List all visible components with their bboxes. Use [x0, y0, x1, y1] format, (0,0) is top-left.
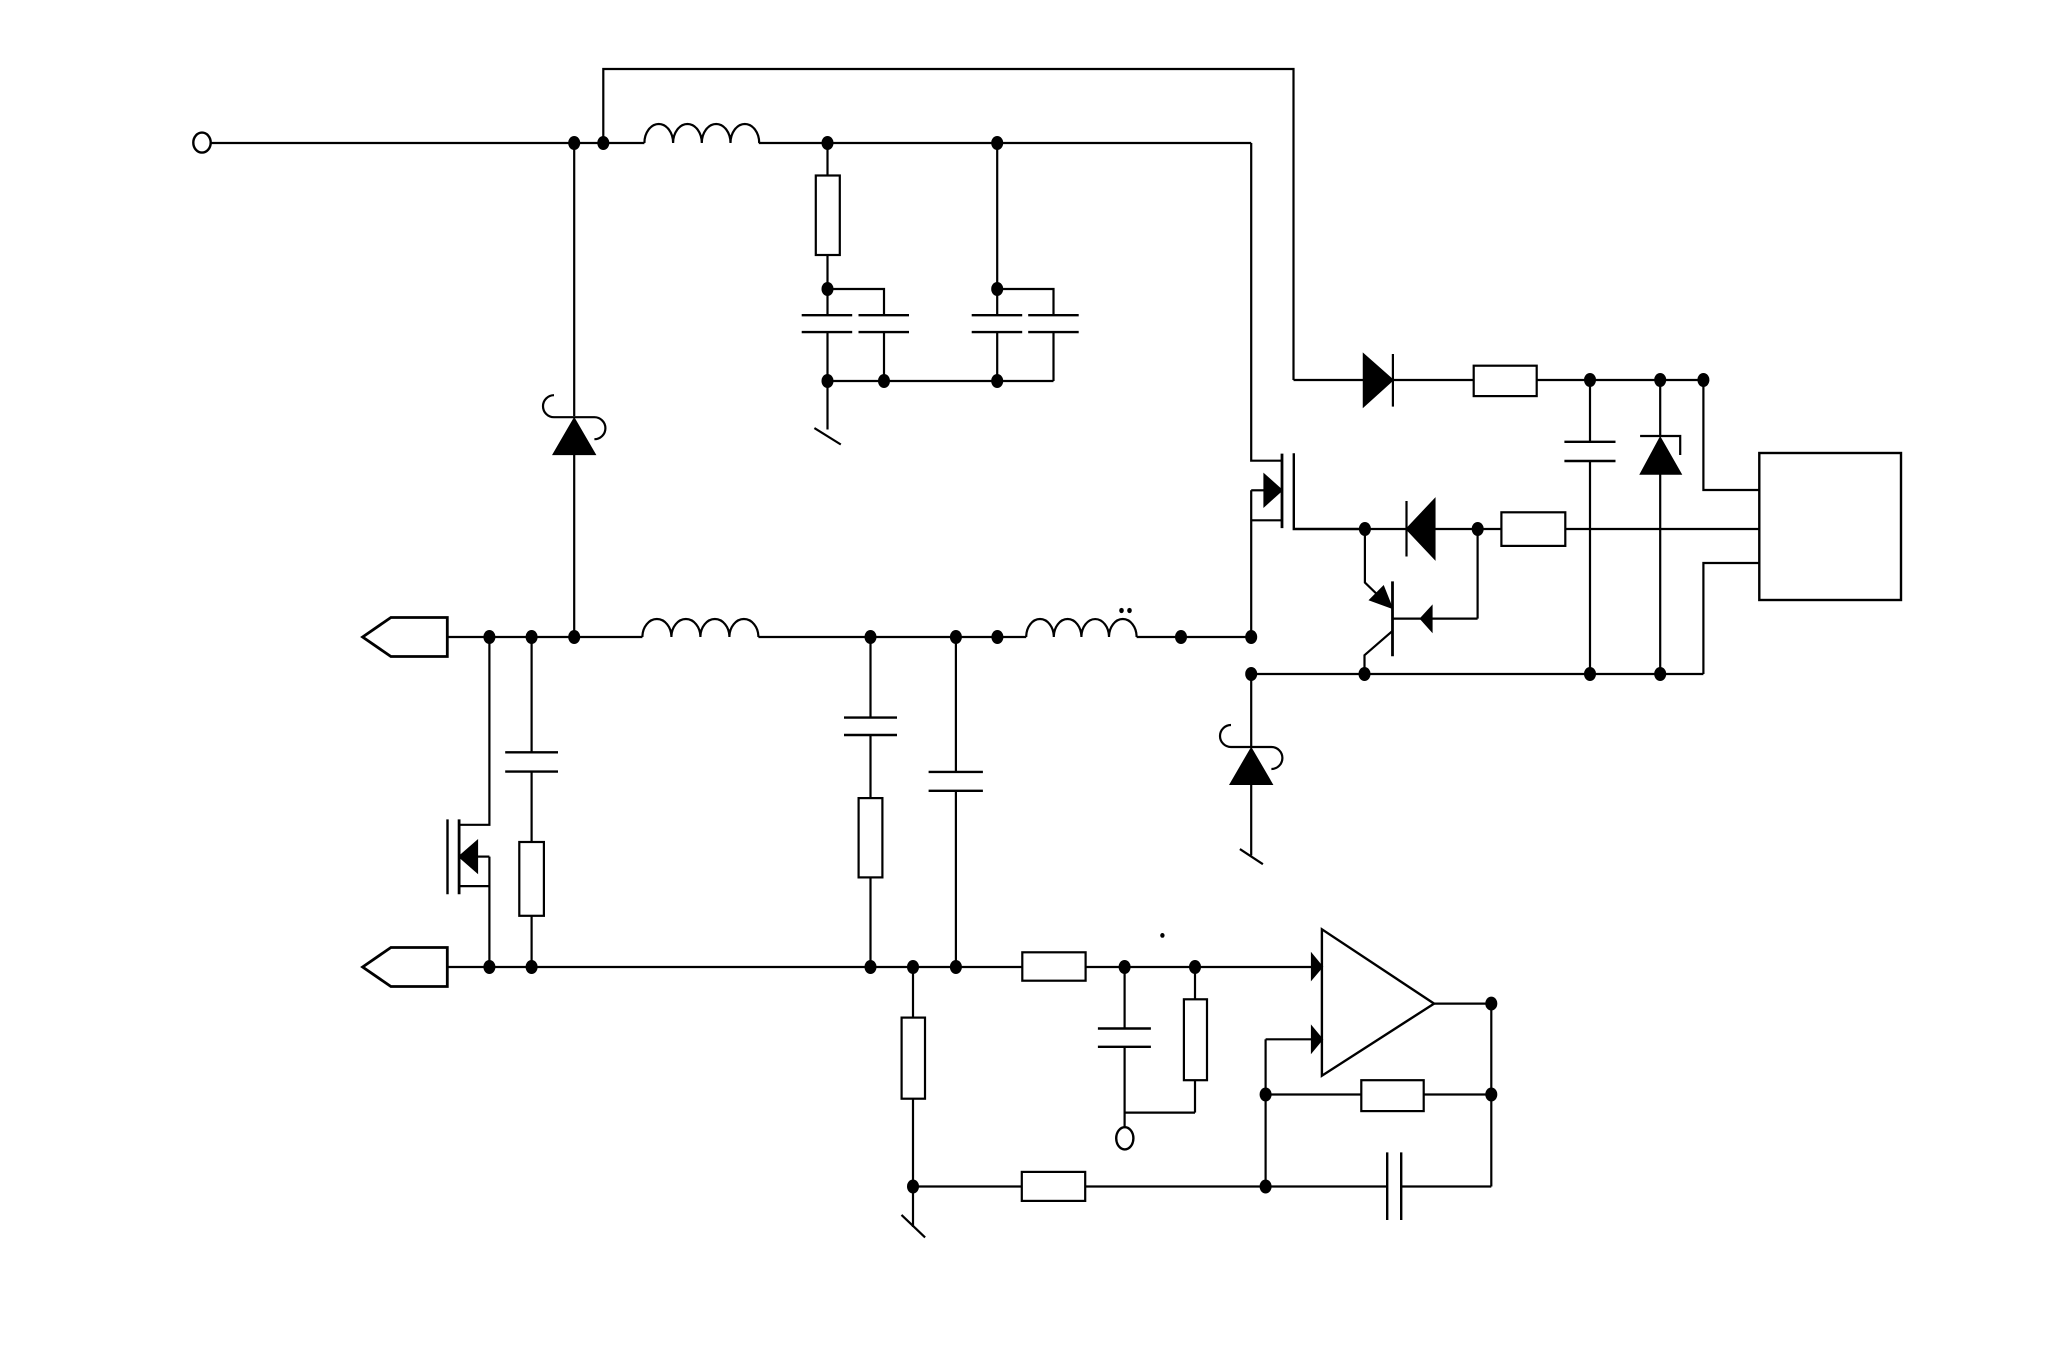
wire op-amp output	[1434, 1002, 1491, 1004]
resistor R9	[1022, 1172, 1085, 1201]
wire minus input	[1266, 1038, 1313, 1040]
wire ZD1 anode	[573, 143, 575, 416]
wire R1 bottom lead	[826, 255, 828, 289]
node top-branch junction	[597, 136, 609, 150]
wire C5 top lead	[1589, 380, 1591, 442]
zener ZD1 cathode bar	[543, 395, 605, 439]
wire D2 to R8	[1435, 528, 1502, 530]
node C1 bottom left	[822, 374, 834, 388]
zener ZD3	[1641, 438, 1682, 475]
wire C5 bottom lead	[1589, 461, 1591, 674]
wire R5 bottom lead	[1194, 1080, 1196, 1112]
wire R1 top lead	[826, 143, 828, 176]
transistor Q2 channel bar	[458, 819, 461, 894]
transistor Q1 channel bar	[1281, 454, 1284, 528]
node Q1-D2 junction	[1359, 522, 1371, 536]
node C1 bottom right	[991, 374, 1003, 388]
wire D1 to R7	[1393, 379, 1474, 381]
resistor R8	[1501, 512, 1565, 546]
resistor R10	[902, 1018, 925, 1099]
resistor R6	[1361, 1080, 1423, 1111]
zener ZD2 cathode bar	[1220, 725, 1282, 769]
node C1 bottom mid	[878, 374, 890, 388]
wire C1a top lead	[826, 289, 828, 315]
wire C1b bottom lead	[883, 332, 885, 381]
wire Q1 source lead down	[1250, 490, 1252, 637]
node ground junction	[907, 1180, 919, 1194]
transistor Q1 arrow	[1265, 475, 1282, 505]
wire C1 bottom bus	[828, 380, 1054, 382]
capacitor C1d plates	[1028, 315, 1079, 332]
wire Q3 collector	[1365, 529, 1384, 601]
wire C7 top lead	[955, 637, 957, 772]
wire Q1 drain lead	[1251, 143, 1282, 461]
node R5 top	[1189, 960, 1201, 974]
connector J1	[363, 618, 448, 657]
node C7 top	[950, 630, 962, 644]
op-amp U1	[1322, 929, 1434, 1075]
zener ZD2	[1230, 748, 1272, 784]
wire Q2 source lead down	[488, 857, 490, 967]
wire C6 to output riser	[1401, 1185, 1491, 1187]
node C1 right top	[991, 136, 1003, 150]
node middle right	[1175, 630, 1187, 644]
wire C1 left bracket	[828, 289, 885, 315]
node ZD1 bottom junction	[568, 630, 580, 644]
polarity dots above L3	[1119, 608, 1124, 613]
node ZD3 top	[1654, 373, 1666, 387]
wire C1a bottom lead	[826, 332, 828, 381]
zener ZD1	[553, 418, 595, 454]
wire C3 top lead	[869, 637, 871, 718]
wire C1c top lead	[996, 289, 998, 315]
wire D2 cathode side	[1365, 528, 1407, 530]
wire box lower pin	[1703, 563, 1759, 674]
wire C3 to R2	[869, 735, 871, 798]
wire Q2 drain lead	[460, 637, 490, 825]
inductor L2	[642, 619, 758, 637]
wire D1 anode	[1294, 379, 1364, 381]
wire Q1 arrow lead	[1251, 489, 1266, 491]
wire R4 to op-amp	[1086, 966, 1313, 968]
wire ZD3 anode lead	[1659, 474, 1661, 674]
node middle row end	[1245, 630, 1257, 644]
wire Q2 arrow lead	[476, 855, 490, 857]
op-amp U1 plus input arrow	[1312, 955, 1322, 979]
wire R7 to box branch	[1537, 379, 1704, 381]
diode D2	[1407, 499, 1435, 559]
wire Q3 base lead	[1393, 617, 1478, 619]
capacitor C1b plates	[859, 315, 910, 332]
wire R10 top lead	[912, 967, 914, 1018]
wire ZD2 anode lead	[1250, 785, 1252, 856]
op-amp U1 minus input arrow	[1312, 1027, 1322, 1051]
wire R3 bottom lead	[530, 916, 532, 967]
resistor R7	[1474, 366, 1537, 396]
wire terminal T2 stub	[1123, 1113, 1125, 1128]
node top-zener junction	[568, 136, 580, 150]
node C5 bottom	[1584, 667, 1596, 681]
transistor Q1 gate bar	[1294, 453, 1365, 529]
resistor R1	[816, 176, 840, 256]
node C1 left top	[822, 282, 834, 296]
node C1 right bracket	[991, 282, 1003, 296]
wire bottom feedback left	[913, 1185, 1022, 1187]
wire C2 top lead	[530, 637, 532, 752]
wire upper loop (y=69) to diode row	[603, 69, 1293, 380]
node R3 bottom	[526, 960, 538, 974]
capacitor C1c plates	[972, 315, 1023, 332]
transistor Q3 base arrow	[1421, 607, 1432, 630]
wire feedback to R6	[1266, 1093, 1362, 1095]
wire R10 bottom lead	[912, 1099, 914, 1187]
wire middle row left	[447, 636, 642, 638]
ground GND3	[902, 1215, 926, 1238]
terminal T2	[1116, 1127, 1133, 1149]
wire R5 top lead	[1194, 967, 1196, 999]
node Q2 drain junction	[483, 630, 495, 644]
capacitor C1a plates	[802, 315, 853, 332]
wire C1 right top lead	[996, 143, 998, 289]
IC box U2	[1759, 453, 1901, 600]
wire Q1 source stub	[1251, 519, 1282, 521]
node ground branch	[907, 960, 919, 974]
capacitor C4 plates	[1098, 1029, 1151, 1047]
wire box upper pin	[1703, 380, 1759, 490]
wire Q3 emitter	[1365, 631, 1393, 674]
wire ZD2 cathode lead	[1250, 674, 1252, 746]
wire R2 bottom lead	[869, 877, 871, 967]
node C5 top	[1584, 373, 1596, 387]
node minus riser bottom	[1260, 1180, 1272, 1194]
node D2-R8 junction	[1472, 522, 1484, 536]
wire middle row centre	[758, 636, 1026, 638]
ground GND1	[814, 428, 840, 444]
wire ZD1 cathode to middle row	[573, 454, 575, 637]
node ZD2 top	[1245, 667, 1257, 681]
input terminal T1	[193, 133, 210, 153]
capacitor C5 plates	[1564, 442, 1615, 461]
wire C4 top lead	[1123, 967, 1125, 1029]
resistor R3	[519, 842, 544, 916]
wire top row right	[759, 142, 1251, 144]
inductor L3	[1026, 619, 1136, 637]
wire ZD3 cathode lead	[1659, 380, 1661, 436]
wire C1d bottom lead	[1052, 332, 1054, 381]
node L3 left	[991, 630, 1003, 644]
node C3 top	[865, 630, 877, 644]
wire middle row right	[1137, 636, 1252, 638]
resistor R4	[1022, 952, 1085, 980]
wire bottom row left	[447, 966, 1022, 968]
wire Q2 source stub	[460, 885, 490, 887]
wire Q3 base riser	[1476, 529, 1478, 619]
capacitor C3 plates	[844, 718, 897, 735]
diode D1	[1364, 354, 1393, 407]
transistor Q3 collector arrow	[1371, 587, 1392, 608]
wire ground stem	[912, 1187, 914, 1228]
wire minus riser lower	[1264, 1095, 1266, 1187]
wire R8 to box middle pin	[1565, 528, 1759, 530]
inductor L1	[644, 124, 759, 143]
capacitor C2 plates	[505, 752, 558, 771]
capacitor C7 plates	[929, 772, 983, 791]
wire C4 bottom link	[1125, 1047, 1195, 1113]
wire R6 to output node	[1424, 1093, 1492, 1095]
node ZD3 bottom	[1654, 667, 1666, 681]
ground GND2	[1240, 849, 1263, 864]
wire C2 to R3	[530, 772, 532, 842]
node output	[1485, 997, 1497, 1011]
transistor Q3 base bar	[1391, 581, 1394, 656]
resistor R5	[1184, 999, 1207, 1080]
wire C1 right bracket	[997, 289, 1053, 315]
transistor Q2 gate bar	[446, 819, 448, 894]
wire top row left	[211, 142, 645, 144]
wire C1 ground stem	[826, 381, 828, 430]
node R2 bottom	[865, 960, 877, 974]
wire output riser	[1490, 1004, 1492, 1187]
node C2 top	[526, 630, 538, 644]
wire C7 bottom lead	[955, 791, 957, 967]
node C7 bottom	[950, 960, 962, 974]
capacitor C6 plates	[1387, 1152, 1401, 1220]
node R1 top	[822, 136, 834, 150]
zener ZD3 cathode bar	[1640, 436, 1680, 455]
transistor Q2 arrow	[460, 841, 477, 871]
wire R9 to C6	[1085, 1185, 1387, 1187]
wire minus input riser	[1264, 1039, 1266, 1094]
node Q2 source junction	[483, 960, 495, 974]
node Q3 emitter junction	[1359, 667, 1371, 681]
node feedback left	[1260, 1088, 1272, 1102]
diode D2 cathode bar	[1405, 501, 1407, 557]
resistor R2	[859, 798, 883, 877]
node C4 top	[1119, 960, 1131, 974]
stray mark	[1160, 933, 1164, 938]
node box upper branch	[1697, 373, 1709, 387]
connector J2	[363, 948, 448, 987]
node feedback right	[1485, 1088, 1497, 1102]
wire lower-middle row	[1251, 673, 1703, 675]
diode D1 cathode bar	[1392, 354, 1394, 407]
wire C1c bottom lead	[996, 332, 998, 381]
